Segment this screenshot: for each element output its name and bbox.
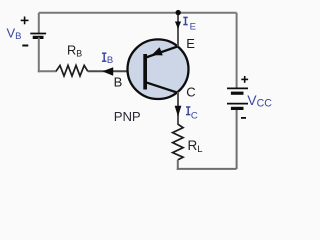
resistor RB [56,65,88,76]
wire: right vertical lower (bottom rail to VCC -) [236,109,238,169]
transistor emitter line [146,46,178,57]
transistor collector line [146,82,178,93]
svg-text:B: B [114,74,123,89]
transistor emitter arrow (PNP, pointing into bar) [152,47,163,55]
wire: bottom rail [177,168,237,170]
arrow IE (pointing down) [175,22,181,29]
wire: left vertical lower (VB - terminal down) [38,37,40,72]
arrow IC (pointing down) [175,106,182,117]
label - (VCC) [241,117,246,119]
label + (VB) [21,17,29,25]
label - (VB) [22,45,28,47]
junction node dot [176,10,181,15]
svg-text:C: C [186,85,195,100]
arrow IB (pointing left) [102,67,113,76]
wire: RL bottom down [177,160,179,170]
label + (VCC) [241,76,248,83]
battery VB [30,34,46,38]
svg-text:E: E [186,36,195,51]
wire: bottom-left horizontal to RB [38,70,57,72]
label IB [102,53,106,61]
battery VCC (two cells) [227,88,248,108]
transistor Q1 circle body [128,39,189,99]
svg-text:PNP: PNP [114,109,141,124]
svg-text:B: B [107,55,113,66]
wire: E vertical (top rail to emitter) [177,13,179,47]
wire: left vertical upper (VB + terminal to top rail) [38,13,40,34]
label IE [183,17,187,24]
wire: RB to base [88,70,145,72]
svg-text:E: E [190,22,196,33]
wire: top rail [39,12,237,14]
resistor RL [173,124,184,160]
wire: right vertical upper (top rail to VCC +) [236,13,238,89]
label IC [186,107,190,115]
wire: collector vertical down to RL [177,92,179,125]
transistor base bar [143,54,147,90]
svg-text:C: C [191,110,198,121]
